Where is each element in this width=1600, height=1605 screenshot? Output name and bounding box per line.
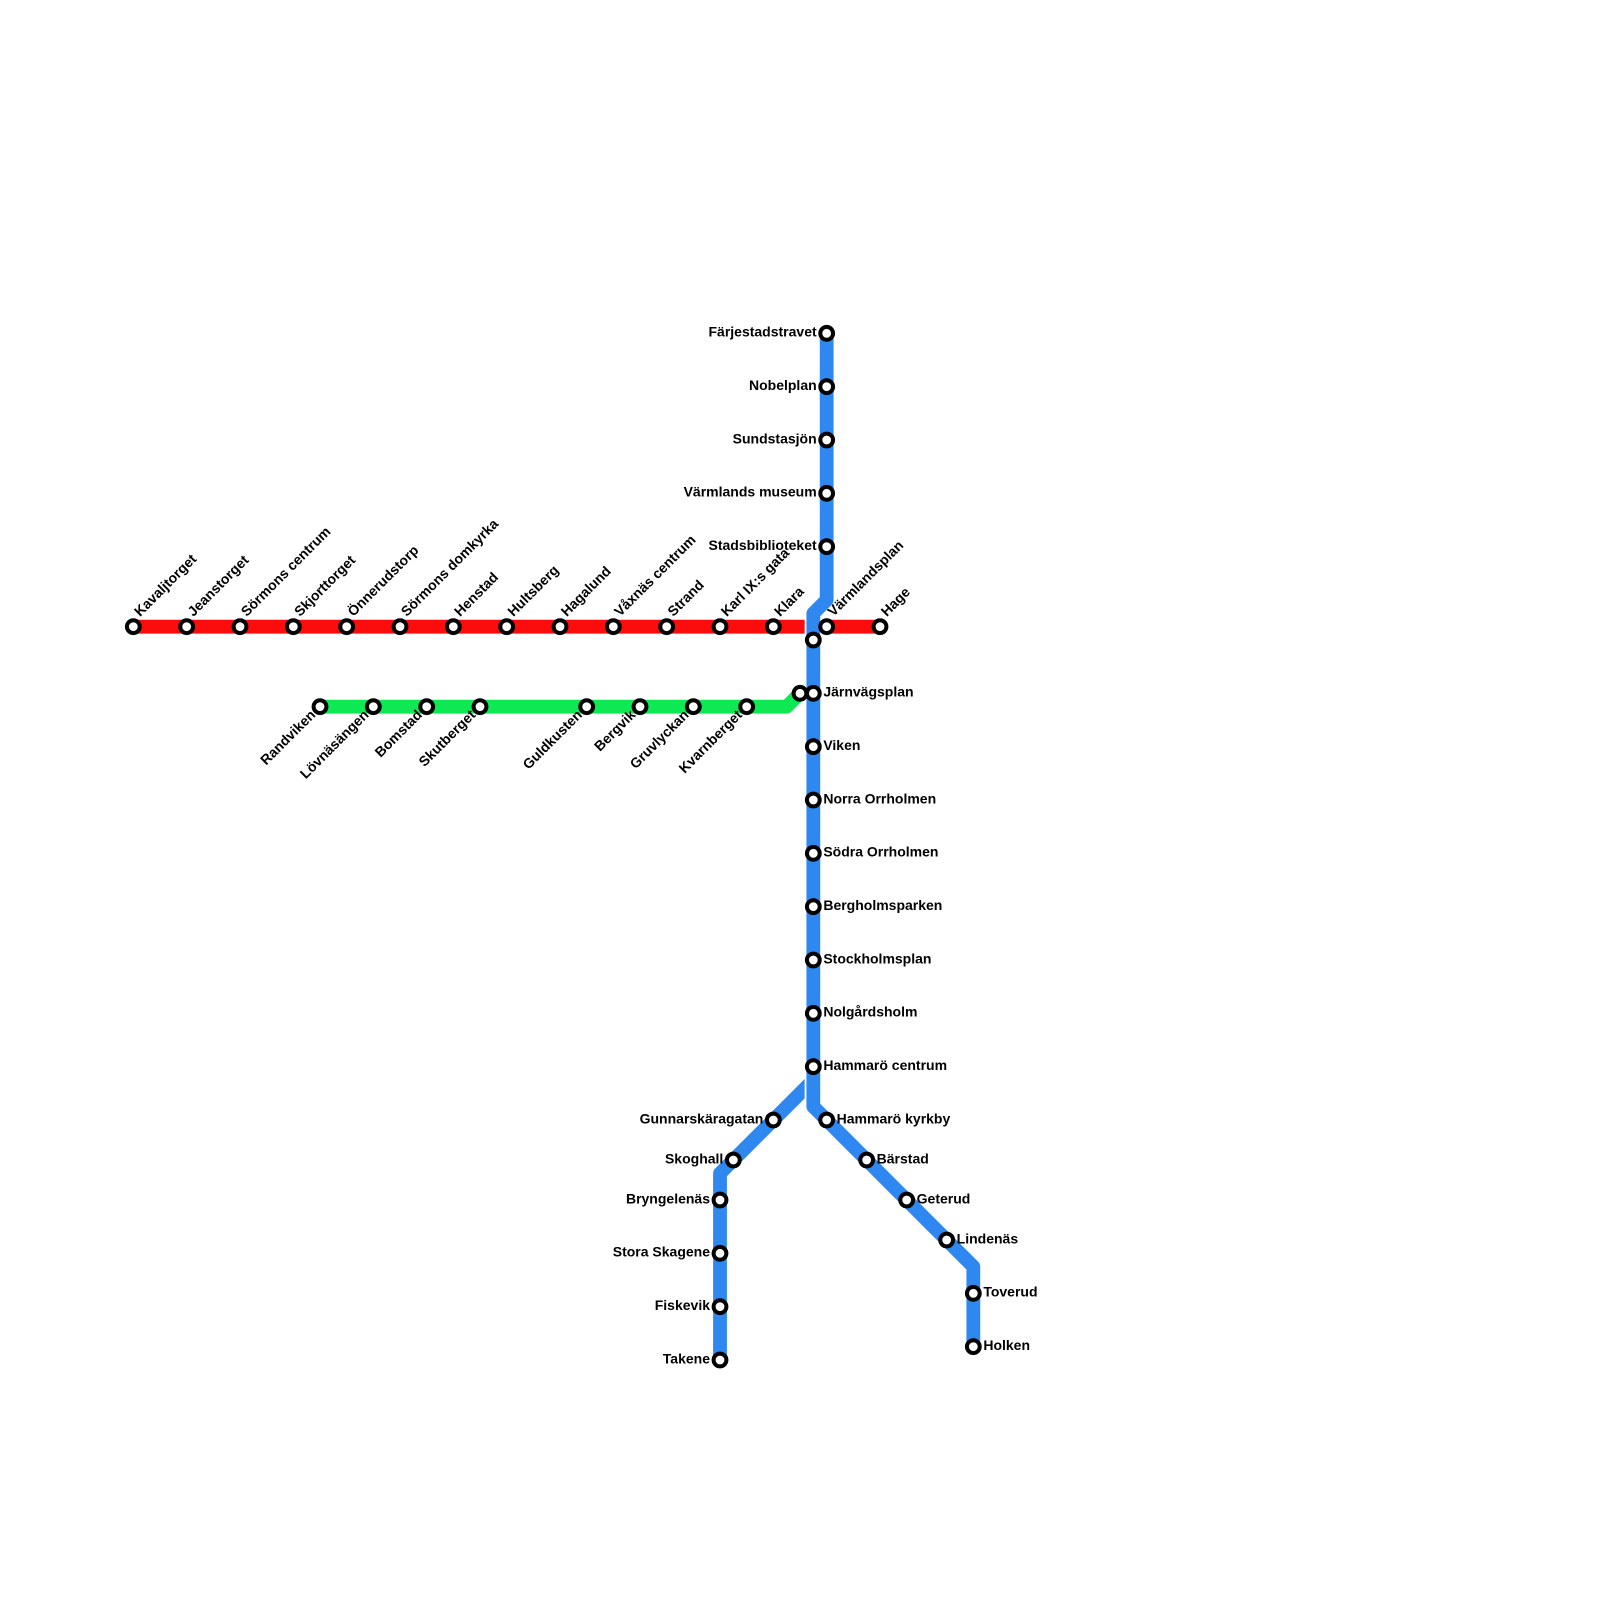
svg-text:Skoghall: Skoghall (665, 1150, 723, 1166)
svg-text:Hammarö kyrkby: Hammarö kyrkby (837, 1110, 951, 1126)
svg-text:Viken: Viken (823, 737, 860, 753)
svg-text:Färjestadstravet: Färjestadstravet (708, 324, 817, 340)
svg-text:Fiskevik: Fiskevik (655, 1297, 710, 1313)
svg-text:Hammarö centrum: Hammarö centrum (823, 1057, 947, 1073)
svg-text:Värmlands museum: Värmlands museum (684, 484, 817, 500)
svg-text:Norra Orrholmen: Norra Orrholmen (823, 790, 936, 806)
svg-text:Holken: Holken (983, 1337, 1030, 1353)
svg-text:Lindenäs: Lindenäs (957, 1230, 1019, 1246)
svg-text:Takene: Takene (663, 1350, 710, 1366)
svg-text:Nobelplan: Nobelplan (749, 377, 817, 393)
svg-text:Stora Skagene: Stora Skagene (613, 1244, 710, 1260)
svg-text:Stockholmsplan: Stockholmsplan (823, 950, 931, 966)
svg-text:Stadsbiblioteket: Stadsbiblioteket (709, 537, 817, 553)
svg-text:Gunnarskäragatan: Gunnarskäragatan (640, 1110, 764, 1126)
svg-text:Nolgårdsholm: Nolgårdsholm (823, 1004, 917, 1020)
svg-text:Toverud: Toverud (983, 1284, 1037, 1300)
svg-text:Geterud: Geterud (917, 1190, 971, 1206)
svg-text:Bryngelenäs: Bryngelenäs (626, 1190, 710, 1206)
svg-text:Bärstad: Bärstad (877, 1150, 929, 1166)
svg-text:Sundstasjön: Sundstasjön (733, 430, 817, 446)
svg-text:Södra Orrholmen: Södra Orrholmen (823, 844, 938, 860)
svg-text:Bergholmsparken: Bergholmsparken (823, 897, 942, 913)
svg-text:Järnvägsplan: Järnvägsplan (823, 684, 913, 700)
